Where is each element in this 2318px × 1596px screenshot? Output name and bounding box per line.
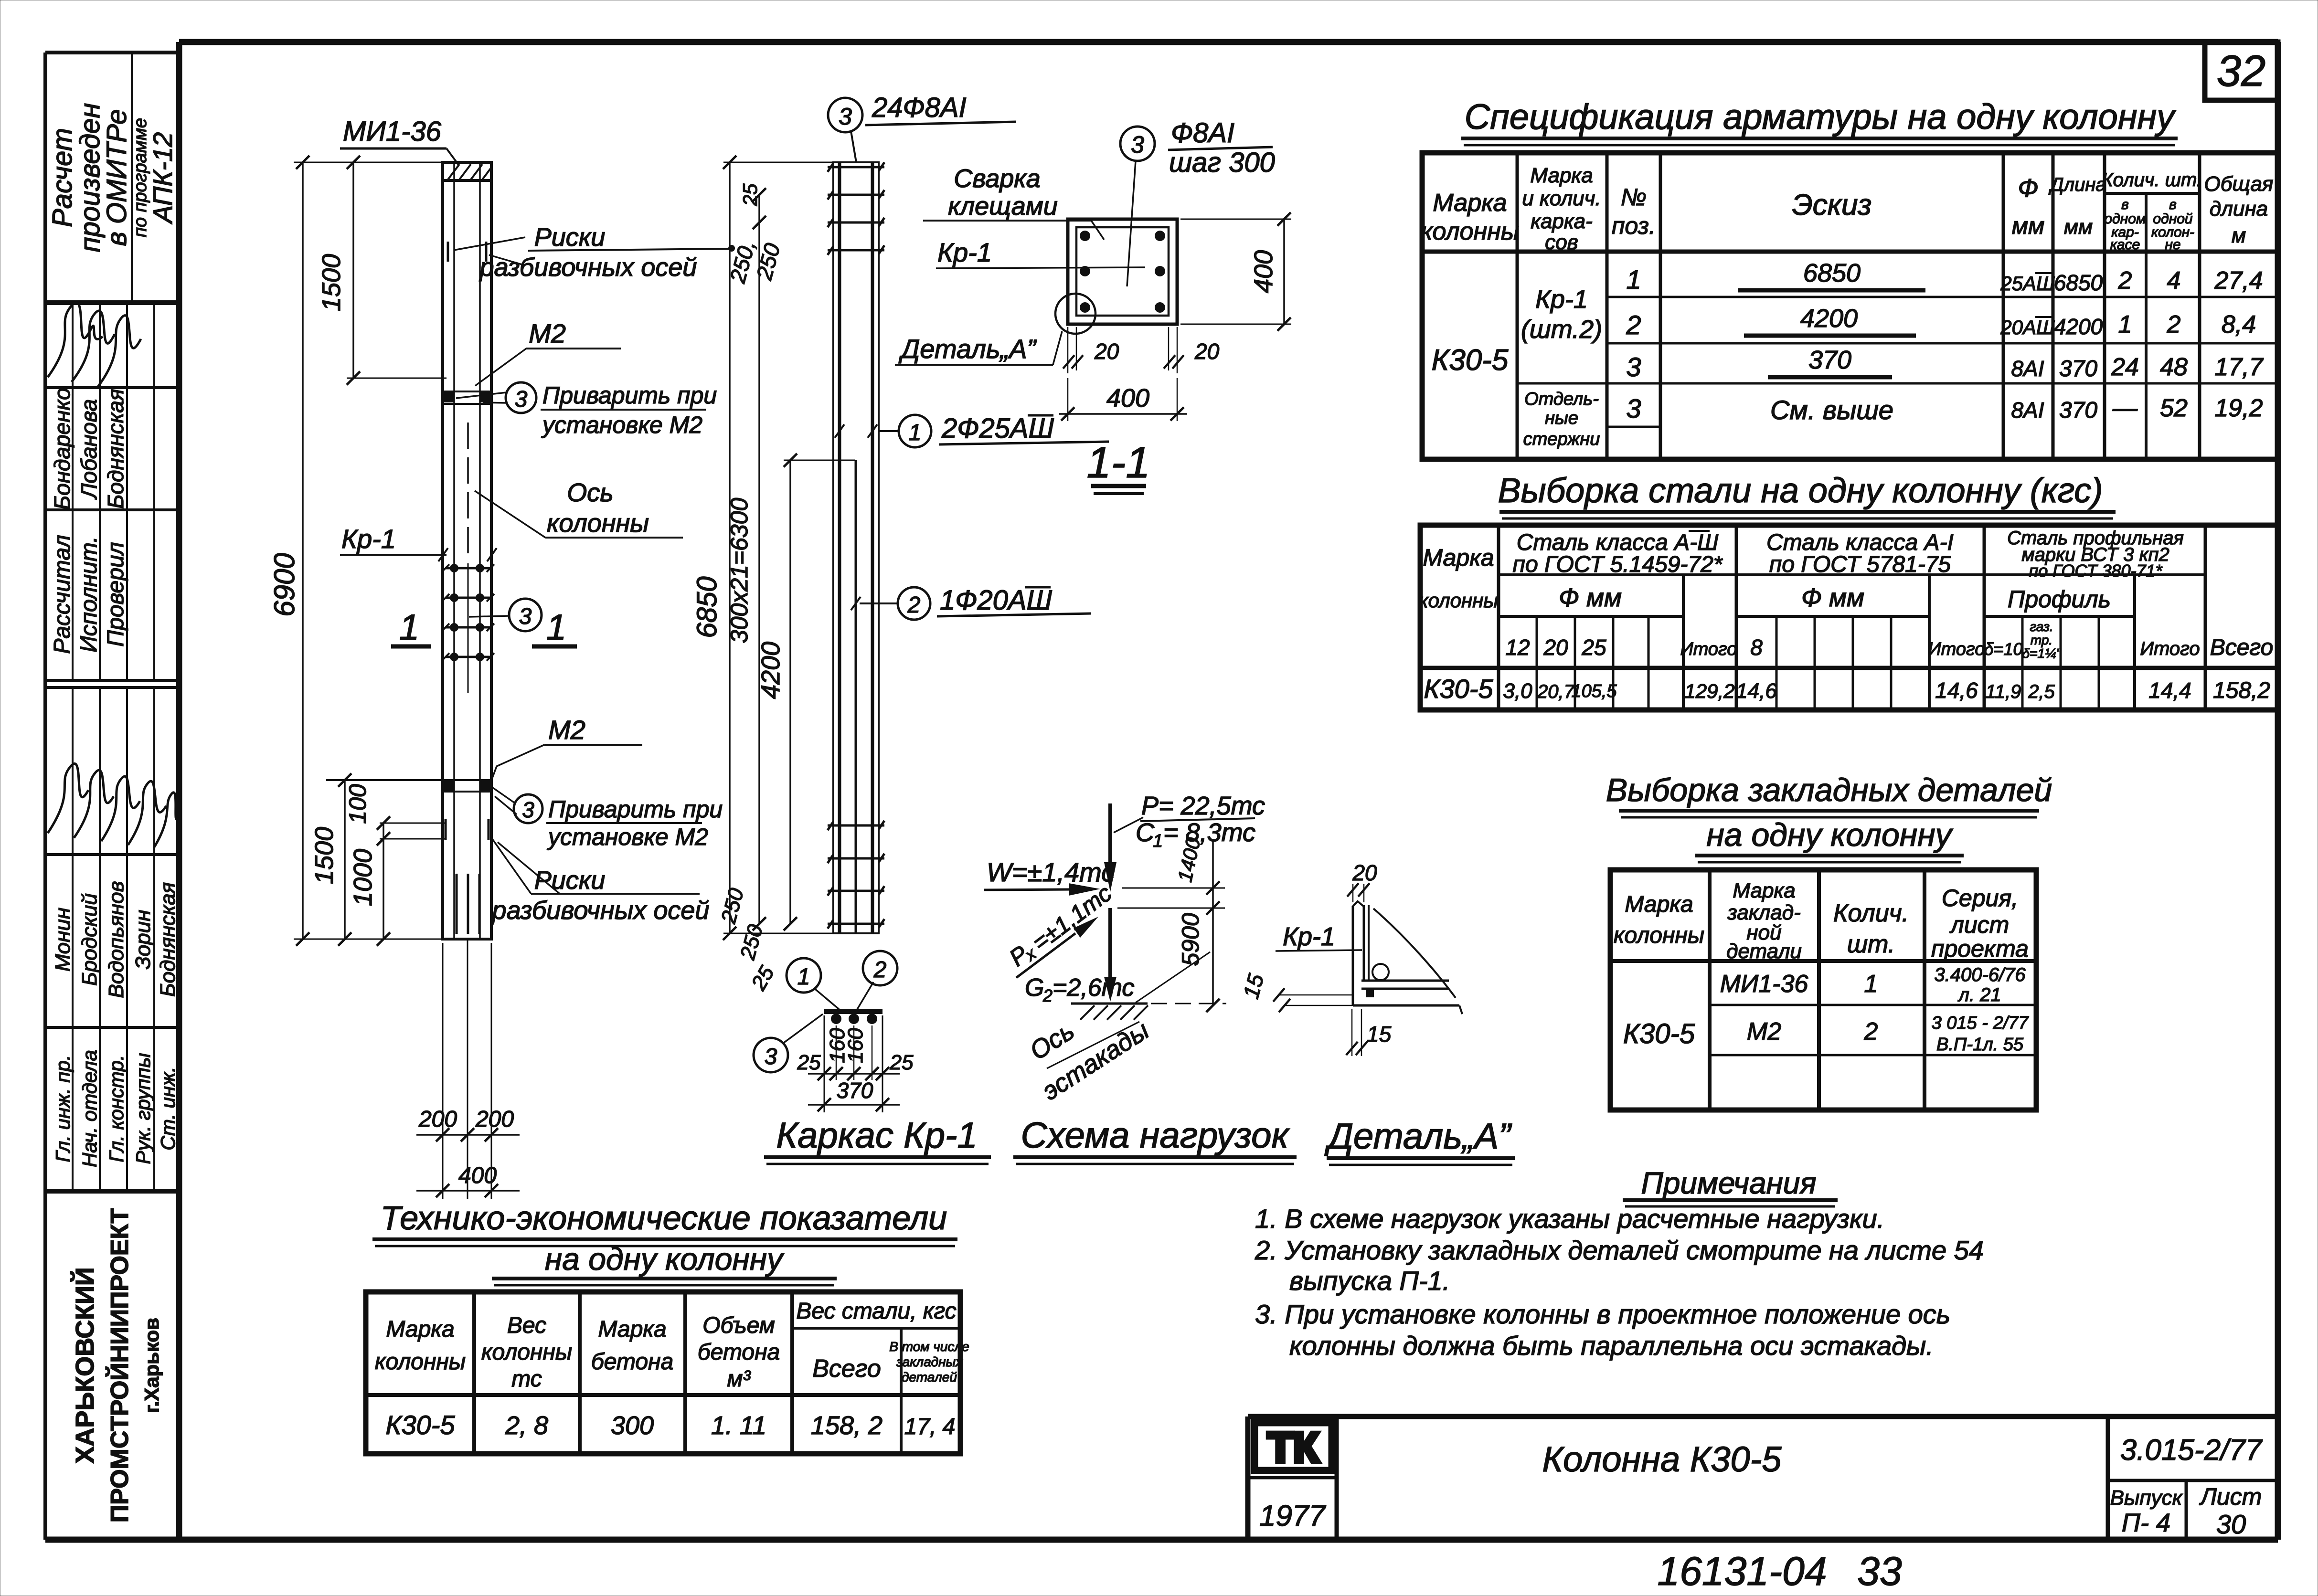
table 2 steel selection bbox=[1420, 525, 2278, 710]
svg-text:К30-5: К30-5 bbox=[1424, 674, 1493, 704]
callout 3 stirrup bbox=[1120, 117, 1275, 286]
svg-text:АПК-12: АПК-12 bbox=[148, 132, 178, 225]
svg-text:3.015-2/77: 3.015-2/77 bbox=[2120, 1434, 2263, 1467]
dims 1500/1000/100 bottom bbox=[310, 773, 390, 946]
callout 3 mid bbox=[469, 599, 542, 631]
svg-text:17, 4: 17, 4 bbox=[904, 1414, 956, 1439]
small dims bottom bbox=[717, 886, 779, 994]
svg-text:г.Харьков: г.Харьков bbox=[140, 1318, 163, 1413]
svg-text:Лист: Лист bbox=[2199, 1483, 2262, 1510]
svg-text:Гл. констр.: Гл. констр. bbox=[105, 1055, 128, 1163]
ground line bbox=[1071, 1004, 1226, 1020]
svg-text:МИ1-36: МИ1-36 bbox=[1720, 970, 1808, 998]
svg-text:16131-04: 16131-04 bbox=[1658, 1549, 1827, 1594]
svg-text:деталей: деталей bbox=[902, 1370, 957, 1385]
svg-text:24: 24 bbox=[2111, 353, 2139, 381]
svg-text:тс: тс bbox=[511, 1366, 542, 1392]
svg-text:Общая: Общая bbox=[2204, 172, 2274, 196]
svg-text:2: 2 bbox=[1626, 310, 1641, 340]
svg-text:м: м bbox=[2232, 224, 2246, 247]
svg-text:24Ф8АI: 24Ф8АI bbox=[872, 92, 967, 123]
svg-text:W=±1,4тс: W=±1,4тс bbox=[987, 857, 1115, 887]
svg-text:Отдель-: Отдель- bbox=[1524, 389, 1599, 409]
strip org name bbox=[70, 1208, 163, 1522]
svg-text:Ось: Ось bbox=[1025, 1016, 1079, 1066]
svg-text:Боднянская: Боднянская bbox=[103, 389, 128, 508]
table 1 armature specification bbox=[1422, 153, 2278, 459]
svg-text:4: 4 bbox=[2167, 267, 2181, 295]
title spec table bbox=[1461, 97, 2178, 145]
svg-text:Расчет: Расчет bbox=[47, 128, 78, 227]
dim 4200 bbox=[756, 454, 855, 930]
svg-text:м³: м³ bbox=[727, 1366, 752, 1392]
svg-text:300: 300 bbox=[611, 1411, 654, 1440]
svg-text:Исполнит.: Исполнит. bbox=[76, 536, 102, 652]
dim 400 right bbox=[1180, 212, 1291, 331]
svg-text:Нач. отдела: Нач. отдела bbox=[78, 1050, 101, 1167]
svg-text:бетона: бетона bbox=[698, 1340, 780, 1365]
svg-text:2: 2 bbox=[2118, 267, 2132, 295]
svg-text:ТК: ТК bbox=[1267, 1424, 1319, 1471]
bottom dims 200/200/400 bbox=[416, 939, 520, 1199]
svg-text:15: 15 bbox=[1367, 1022, 1392, 1046]
label 1-1 bbox=[1087, 438, 1150, 494]
svg-text:М2: М2 bbox=[548, 715, 585, 745]
svg-text:колонны должна быть паралле: колонны должна быть параллельна оси эста… bbox=[1289, 1331, 1934, 1361]
page number box 32 bbox=[2205, 42, 2278, 100]
svg-text:карка-: карка- bbox=[1531, 210, 1593, 233]
top ties bbox=[828, 162, 884, 255]
svg-text:в: в bbox=[2169, 197, 2177, 212]
svg-text:14,6: 14,6 bbox=[1736, 679, 1777, 703]
svg-text:3: 3 bbox=[1626, 352, 1641, 382]
cage ties in elevation bbox=[442, 563, 494, 693]
svg-text:370: 370 bbox=[1808, 346, 1851, 374]
svg-text:Эскиз: Эскиз bbox=[1792, 189, 1872, 222]
svg-text:20: 20 bbox=[1094, 339, 1119, 364]
drawing titles bbox=[764, 1115, 1515, 1165]
svg-text:Итого: Итого bbox=[2140, 638, 2200, 659]
svg-text:М2: М2 bbox=[1747, 1018, 1781, 1046]
svg-text:Вес: Вес bbox=[507, 1313, 546, 1338]
strip signatures row1 bbox=[48, 302, 141, 387]
svg-text:2: 2 bbox=[2167, 311, 2181, 338]
svg-text:30: 30 bbox=[2216, 1509, 2246, 1539]
svg-text:Гл. инж. пр.: Гл. инж. пр. bbox=[52, 1055, 74, 1163]
label welding bbox=[923, 164, 1104, 240]
svg-text:Ф мм: Ф мм bbox=[1801, 583, 1864, 612]
svg-text:К30-5: К30-5 bbox=[385, 1410, 455, 1440]
svg-text:К30-5: К30-5 bbox=[1432, 344, 1509, 377]
svg-text:Риски: Риски bbox=[534, 223, 606, 252]
callout 3 top: 24 F8AI bbox=[828, 92, 1016, 162]
svg-text:3: 3 bbox=[839, 103, 852, 130]
svg-text:20: 20 bbox=[1543, 635, 1568, 660]
svg-text:1. 11: 1. 11 bbox=[711, 1411, 766, 1440]
svg-text:3. При установке колонны в: 3. При установке колонны в проектное пол… bbox=[1255, 1299, 1950, 1329]
svg-text:Серия,: Серия, bbox=[1942, 885, 2018, 911]
svg-text:выпуска П-1.: выпуска П-1. bbox=[1289, 1266, 1450, 1296]
svg-text:20: 20 bbox=[1194, 339, 1220, 364]
svg-text:проекта: проекта bbox=[1931, 935, 2029, 962]
label risks lower bbox=[491, 838, 710, 925]
svg-text:2,5: 2,5 bbox=[2028, 681, 2055, 702]
force P arrow bbox=[1104, 792, 1265, 892]
svg-text:300х21=6300: 300х21=6300 bbox=[726, 498, 753, 644]
svg-text:3: 3 bbox=[1131, 131, 1144, 158]
svg-text:250: 250 bbox=[736, 922, 768, 962]
svg-text:2: 2 bbox=[1864, 1018, 1878, 1046]
svg-text:4200: 4200 bbox=[756, 642, 785, 699]
svg-text:ХАРЬКОВСКИЙ: ХАРЬКОВСКИЙ bbox=[70, 1267, 99, 1463]
label MI1-36 bbox=[340, 116, 458, 165]
svg-text:Марка: Марка bbox=[386, 1317, 454, 1342]
svg-text:25: 25 bbox=[739, 183, 761, 206]
svg-text:Боднянская: Боднянская bbox=[156, 882, 180, 997]
svg-text:370: 370 bbox=[2059, 398, 2097, 423]
svg-text:Выпуск: Выпуск bbox=[2110, 1486, 2183, 1510]
svg-text:33: 33 bbox=[1857, 1549, 1902, 1594]
svg-text:лист: лист bbox=[1949, 911, 2010, 938]
svg-text:158,2: 158,2 bbox=[2213, 678, 2270, 703]
svg-text:Марка: Марка bbox=[598, 1317, 666, 1342]
svg-text:100: 100 bbox=[344, 784, 371, 824]
svg-text:колонны: колонны bbox=[481, 1340, 572, 1365]
svg-text:Лобанова: Лобанова bbox=[76, 399, 101, 500]
svg-text:л. 21: л. 21 bbox=[1957, 984, 2001, 1005]
dim 1500 top bbox=[317, 156, 447, 385]
svg-text:Марка: Марка bbox=[1433, 189, 1507, 217]
svg-text:400: 400 bbox=[1249, 250, 1278, 293]
title steel table bbox=[1498, 472, 2116, 518]
svg-text:закладных: закладных bbox=[896, 1354, 963, 1369]
svg-text:Колич.: Колич. bbox=[1833, 899, 1909, 927]
dim 6900 bbox=[268, 156, 444, 946]
svg-text:колонны: колонны bbox=[1421, 218, 1519, 245]
svg-text:4200: 4200 bbox=[2054, 314, 2103, 339]
force G2 label bbox=[1025, 974, 1134, 1005]
svg-text:Монин: Монин bbox=[51, 908, 74, 972]
callout 3 lower bbox=[493, 788, 723, 850]
svg-text:3: 3 bbox=[522, 797, 534, 822]
svg-text:Бродский: Бродский bbox=[78, 893, 101, 986]
svg-text:Р= 22,5тс: Р= 22,5тс bbox=[1141, 792, 1265, 820]
strip signatures row2 bbox=[48, 763, 178, 848]
svg-text:МИ1-36: МИ1-36 bbox=[343, 116, 442, 147]
lower column force line bbox=[1104, 908, 1116, 1002]
svg-text:15: 15 bbox=[1238, 971, 1269, 1001]
svg-text:Сварка: Сварка bbox=[954, 164, 1041, 193]
svg-text:25: 25 bbox=[746, 962, 779, 994]
svg-text:1: 1 bbox=[2118, 311, 2132, 338]
svg-text:2: 2 bbox=[907, 592, 921, 618]
svg-text:установке М2: установке М2 bbox=[547, 824, 708, 850]
label M2 lower bbox=[492, 715, 642, 779]
svg-text:—: — bbox=[2112, 394, 2138, 422]
svg-text:Всего: Всего bbox=[812, 1355, 881, 1383]
svg-text:3: 3 bbox=[519, 604, 532, 629]
svg-text:длина: длина bbox=[2210, 197, 2268, 221]
dim 300x21=6300 bbox=[726, 188, 766, 930]
svg-text:Рук. группы: Рук. группы bbox=[132, 1053, 154, 1164]
svg-text:δ=1¼": δ=1¼" bbox=[2022, 646, 2062, 661]
svg-text:ные: ные bbox=[1545, 408, 1578, 428]
svg-text:25АШ: 25АШ bbox=[2000, 272, 2055, 295]
svg-text:Марка: Марка bbox=[1733, 879, 1795, 902]
dim 15 left bbox=[1238, 971, 1353, 1012]
svg-text:детали: детали bbox=[1726, 940, 1802, 963]
svg-text:3,0: 3,0 bbox=[1503, 679, 1532, 703]
svg-text:3 015 - 2/77: 3 015 - 2/77 bbox=[1932, 1013, 2030, 1033]
svg-text:в: в bbox=[2121, 197, 2129, 212]
svg-text:по ГОСТ 5781-75: по ГОСТ 5781-75 bbox=[1769, 552, 1951, 577]
svg-text:разбивочных осей: разбивочных осей bbox=[479, 253, 697, 282]
svg-text:1000: 1000 bbox=[349, 849, 377, 906]
svg-text:Рассчитал: Рассчитал bbox=[50, 535, 75, 654]
svg-text:1: 1 bbox=[399, 607, 419, 648]
small dims top bbox=[725, 183, 785, 286]
svg-text:колонны: колонны bbox=[547, 509, 649, 538]
svg-text:1: 1 bbox=[1153, 831, 1163, 851]
svg-text:тр.: тр. bbox=[2031, 633, 2052, 647]
svg-text:Проверил: Проверил bbox=[103, 542, 128, 646]
svg-text:Технико-экономические показат: Технико-экономические показатели bbox=[381, 1199, 947, 1237]
svg-text:19,2: 19,2 bbox=[2214, 394, 2263, 422]
svg-text:и колич.: и колич. bbox=[1522, 187, 1601, 210]
svg-text:105,5: 105,5 bbox=[1571, 681, 1617, 701]
svg-text:Марка: Марка bbox=[1530, 164, 1593, 187]
svg-text:колонны: колонны bbox=[1614, 923, 1704, 948]
svg-text:370: 370 bbox=[2059, 356, 2097, 381]
svg-text:1. В схеме нагрузок указаны: 1. В схеме нагрузок указаны расчетные на… bbox=[1255, 1204, 1884, 1234]
svg-text:1: 1 bbox=[546, 607, 566, 648]
column axis dash bbox=[467, 423, 469, 555]
section square bbox=[1068, 219, 1177, 324]
svg-text:Объем: Объем bbox=[702, 1313, 775, 1338]
svg-text:по ГОСТ 5.1459-72*: по ГОСТ 5.1459-72* bbox=[1513, 552, 1723, 577]
svg-text:Деталь„А”: Деталь„А” bbox=[898, 334, 1037, 364]
svg-text:ПРОМСТРОЙНИИПРОЕКТ: ПРОМСТРОЙНИИПРОЕКТ bbox=[106, 1208, 134, 1522]
svg-text:2Ф25АШ: 2Ф25АШ bbox=[941, 413, 1054, 444]
svg-text:Марка: Марка bbox=[1625, 892, 1693, 917]
svg-text:400: 400 bbox=[458, 1163, 497, 1188]
label Kr-1 bbox=[340, 524, 497, 561]
svg-text:на одну колонну: на одну колонну bbox=[545, 1241, 785, 1277]
svg-text:См. выше: См. выше bbox=[1770, 395, 1893, 425]
svg-text:48: 48 bbox=[2160, 353, 2188, 381]
svg-text:3.400-6/76: 3.400-6/76 bbox=[1934, 964, 2026, 985]
strip names row1 bbox=[50, 388, 128, 510]
svg-text:установке М2: установке М2 bbox=[541, 412, 702, 438]
dims 1400 / 5900 bbox=[1117, 835, 1225, 1012]
svg-text:Кр-1: Кр-1 bbox=[1535, 285, 1588, 314]
left stamp strip bbox=[45, 53, 179, 1540]
svg-text:Ст. инж.: Ст. инж. bbox=[157, 1067, 179, 1150]
svg-text:мм: мм bbox=[2012, 212, 2045, 239]
svg-text:11,9: 11,9 bbox=[1986, 681, 2021, 702]
svg-text:14,4: 14,4 bbox=[2148, 678, 2191, 703]
dim 20 top bbox=[1347, 860, 1377, 902]
svg-text:3: 3 bbox=[515, 387, 528, 412]
title TEP table bbox=[372, 1199, 957, 1285]
force W arrow bbox=[984, 857, 1115, 896]
svg-text:2: 2 bbox=[873, 957, 887, 983]
svg-text:158, 2: 158, 2 bbox=[811, 1411, 883, 1440]
svg-text:200: 200 bbox=[418, 1107, 457, 1132]
svg-text:Деталь„А”: Деталь„А” bbox=[1324, 1116, 1513, 1157]
svg-text:мм: мм bbox=[2064, 215, 2093, 239]
risks lower bbox=[380, 819, 489, 840]
svg-text:Ось: Ось bbox=[567, 478, 613, 507]
svg-text:25: 25 bbox=[797, 1051, 821, 1074]
svg-text:Водопьянов: Водопьянов bbox=[105, 881, 128, 998]
svg-text:в ОМИТРе: в ОМИТРе bbox=[101, 109, 132, 246]
svg-text:К30-5: К30-5 bbox=[1623, 1018, 1695, 1049]
svg-text:G: G bbox=[1025, 974, 1044, 1002]
embed M2 lower bbox=[326, 780, 491, 792]
notes bbox=[1255, 1166, 1984, 1361]
svg-text:δ=10: δ=10 bbox=[1984, 639, 2022, 659]
svg-text:20,7: 20,7 bbox=[1537, 681, 1575, 702]
column body bbox=[443, 162, 491, 939]
label M2 upper bbox=[475, 318, 621, 386]
svg-text:П- 4: П- 4 bbox=[2122, 1509, 2170, 1537]
svg-text:1-1: 1-1 bbox=[1087, 438, 1150, 487]
force Px arrow bbox=[1004, 879, 1116, 978]
svg-text:шаг 300: шаг 300 bbox=[1169, 147, 1275, 178]
callout 2 : 1F20AIII bbox=[851, 585, 1091, 620]
svg-text:клещами: клещами bbox=[948, 192, 1058, 221]
strip texts block1 bbox=[47, 103, 178, 253]
svg-text:32: 32 bbox=[2217, 47, 2265, 95]
svg-text:Кр-1: Кр-1 bbox=[937, 237, 992, 267]
callout 3 weld upper bbox=[456, 382, 717, 438]
svg-text:1: 1 bbox=[909, 420, 922, 445]
svg-text:С: С bbox=[1136, 818, 1155, 847]
svg-text:8: 8 bbox=[1750, 635, 1763, 660]
svg-text:8АI: 8АI bbox=[2011, 356, 2044, 381]
bottom ties bbox=[828, 821, 884, 929]
svg-text:Итого: Итого bbox=[1680, 639, 1737, 659]
svg-text:1: 1 bbox=[1864, 970, 1878, 998]
svg-text:2, 8: 2, 8 bbox=[505, 1411, 548, 1440]
svg-text:160: 160 bbox=[844, 1028, 867, 1063]
svg-text:Марка: Марка bbox=[1423, 544, 1494, 571]
svg-text:4200: 4200 bbox=[1800, 304, 1858, 333]
svg-text:1977: 1977 bbox=[1259, 1500, 1326, 1533]
svg-text:Колонна К30-5: Колонна К30-5 bbox=[1542, 1439, 1782, 1479]
dim 400 bottom bbox=[1059, 378, 1187, 421]
dim 15 bottom bbox=[1346, 1009, 1392, 1056]
svg-text:1500: 1500 bbox=[310, 827, 339, 884]
svg-text:Колич. шт.: Колич. шт. bbox=[2102, 169, 2202, 190]
svg-text:3: 3 bbox=[765, 1044, 777, 1069]
svg-text:Выборка закладных деталей: Выборка закладных деталей bbox=[1606, 772, 2052, 808]
svg-text:14,6: 14,6 bbox=[1935, 678, 1978, 703]
embed M2 upper bbox=[443, 391, 491, 404]
svg-text:Ф: Ф bbox=[2018, 174, 2039, 202]
cage bottom view bar bbox=[754, 951, 897, 1072]
table 4 TEP bbox=[366, 1292, 960, 1454]
svg-text:3: 3 bbox=[1626, 393, 1641, 423]
svg-text:шт.: шт. bbox=[1847, 930, 1895, 958]
svg-text:250: 250 bbox=[717, 886, 749, 926]
svg-text:бетона: бетона bbox=[591, 1349, 673, 1374]
svg-text:20АШ: 20АШ bbox=[2000, 316, 2055, 338]
svg-text:поз.: поз. bbox=[1612, 212, 1656, 239]
svg-text:Длина: Длина bbox=[2048, 174, 2106, 195]
svg-text:25: 25 bbox=[1581, 635, 1606, 660]
axis marks (risks) top bbox=[448, 237, 525, 265]
handwritten sheet number bbox=[1658, 1549, 1902, 1594]
svg-text:М2: М2 bbox=[529, 318, 566, 349]
svg-text:Схема нагрузок: Схема нагрузок bbox=[1021, 1115, 1290, 1156]
svg-text:= 8,3тс: = 8,3тс bbox=[1163, 818, 1255, 847]
label axis of column bbox=[475, 478, 683, 538]
svg-text:по ГОСТ 380-71*: по ГОСТ 380-71* bbox=[2029, 561, 2162, 581]
svg-text:129,2: 129,2 bbox=[1684, 680, 1734, 702]
svg-text:Зорин: Зорин bbox=[131, 910, 155, 970]
svg-text:2. Установку закладных детал: 2. Установку закладных деталей смотрите … bbox=[1255, 1235, 1984, 1265]
strip names row2 bbox=[51, 881, 180, 998]
svg-text:1Ф20АШ: 1Ф20АШ bbox=[940, 585, 1053, 616]
table 3 embedded details bbox=[1610, 870, 2036, 1110]
callout 1 : 2F25AIII bbox=[835, 413, 1109, 447]
title block bottom right bbox=[1248, 1416, 2278, 1540]
svg-text:Каркас Кр-1: Каркас Кр-1 bbox=[776, 1115, 977, 1156]
svg-text:(шт.2): (шт.2) bbox=[1521, 315, 1602, 344]
svg-text:Спецификация арматуры на од: Спецификация арматуры на одну колонну bbox=[1465, 97, 2177, 137]
svg-text:25: 25 bbox=[890, 1051, 914, 1074]
svg-text:=2,6тс: =2,6тс bbox=[1053, 974, 1134, 1002]
svg-text:Приварить при: Приварить при bbox=[548, 796, 723, 823]
cage outline bbox=[833, 162, 879, 933]
svg-text:12: 12 bbox=[1505, 635, 1530, 660]
svg-text:6900: 6900 bbox=[268, 553, 300, 616]
svg-text:Приварить при: Приварить при bbox=[542, 382, 717, 409]
svg-text:6850: 6850 bbox=[2054, 270, 2103, 295]
svg-text:200: 200 bbox=[475, 1107, 514, 1132]
svg-text:52: 52 bbox=[2160, 394, 2188, 422]
dim 6850 bbox=[691, 156, 833, 940]
section marks 1-1 bbox=[391, 607, 577, 648]
bottom view dims bbox=[797, 1015, 914, 1112]
label risks top bbox=[479, 223, 735, 282]
svg-text:Бондаренко: Бондаренко bbox=[50, 388, 74, 510]
bottom anchor bars bbox=[457, 874, 479, 934]
svg-text:2: 2 bbox=[1042, 986, 1053, 1005]
label Kr-1 detail bbox=[1276, 922, 1362, 951]
svg-text:стержни: стержни bbox=[1523, 429, 1600, 449]
svg-text:8,4: 8,4 bbox=[2222, 311, 2256, 338]
svg-text:не: не bbox=[2165, 237, 2180, 253]
svg-text:Кр-1: Кр-1 bbox=[341, 524, 396, 554]
svg-text:27,4: 27,4 bbox=[2214, 267, 2263, 295]
svg-text:Всего: Всего bbox=[2210, 635, 2274, 660]
svg-text:Выборка стали на одну коло: Выборка стали на одну колонну (кгс) bbox=[1498, 472, 2103, 510]
svg-text:В.П-1л. 55: В.П-1л. 55 bbox=[1936, 1035, 2024, 1055]
svg-text:Профиль: Профиль bbox=[2008, 586, 2111, 613]
detail A body bbox=[1353, 901, 1462, 1014]
svg-text:колонны: колонны bbox=[375, 1349, 466, 1374]
strip roles row2 bbox=[52, 1050, 179, 1167]
svg-text:Ф8АI: Ф8АI bbox=[1171, 117, 1234, 148]
svg-text:касе: касе bbox=[2110, 237, 2140, 253]
svg-text:В том числе: В том числе bbox=[889, 1339, 969, 1354]
svg-text:Примечания: Примечания bbox=[1641, 1166, 1816, 1200]
svg-text:6850: 6850 bbox=[691, 576, 723, 638]
svg-text:Итого: Итого bbox=[1928, 639, 1985, 659]
